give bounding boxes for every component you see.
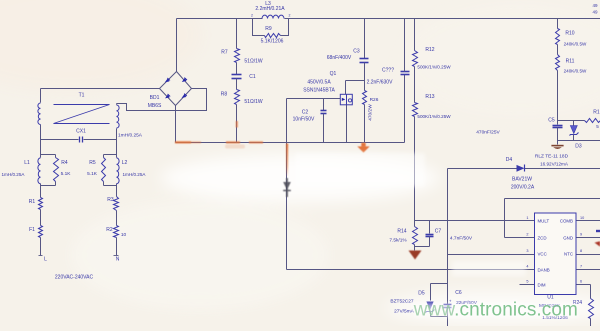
svg-text:C7: C7: [435, 229, 442, 235]
svg-text:500K/1%/0.25W: 500K/1%/0.25W: [417, 114, 451, 119]
svg-text:2.2nF/630V: 2.2nF/630V: [367, 80, 394, 86]
svg-text:R8: R8: [221, 92, 228, 98]
svg-text:L1: L1: [24, 160, 30, 166]
svg-text:NTC: NTC: [564, 252, 573, 257]
svg-text:450V/0.5A: 450V/0.5A: [307, 80, 331, 86]
svg-text:5.1K: 5.1K: [87, 171, 98, 177]
svg-text:L2: L2: [122, 160, 128, 166]
svg-text:SSN1N45BTA: SSN1N45BTA: [303, 88, 335, 94]
svg-text:C???: C???: [382, 68, 394, 74]
svg-text:F1: F1: [29, 227, 35, 233]
svg-text:7.5k/1%: 7.5k/1%: [389, 238, 407, 244]
svg-text:200V/0.2A: 200V/0.2A: [511, 185, 535, 191]
svg-text:GND: GND: [563, 236, 573, 241]
svg-text:R9: R9: [265, 26, 272, 32]
svg-text:4: 4: [526, 265, 528, 269]
svg-text:DANB: DANB: [538, 267, 550, 272]
svg-text:2: 2: [251, 14, 253, 18]
svg-text:R2: R2: [106, 227, 113, 233]
svg-text:10: 10: [121, 232, 127, 238]
svg-text:R12: R12: [425, 47, 434, 53]
svg-text:ZCD: ZCD: [538, 236, 547, 241]
svg-text:7: 7: [580, 265, 582, 269]
svg-text:2.2mH/0.21A: 2.2mH/0.21A: [255, 6, 285, 12]
svg-text:MULT: MULT: [538, 219, 550, 224]
svg-text:R7: R7: [221, 50, 228, 56]
svg-text:R11: R11: [566, 59, 575, 65]
svg-text:49: 49: [592, 10, 598, 15]
svg-text:27V/5mA: 27V/5mA: [394, 308, 415, 314]
svg-text:R13: R13: [425, 94, 434, 100]
svg-text:2: 2: [289, 14, 291, 18]
svg-text:5: 5: [596, 124, 599, 129]
svg-text:L: L: [44, 257, 47, 263]
svg-text:C6: C6: [455, 290, 462, 296]
svg-text:R1: R1: [29, 199, 36, 205]
svg-text:1mH/0.25A: 1mH/0.25A: [123, 172, 147, 177]
svg-text:R3: R3: [107, 197, 114, 203]
svg-text:N: N: [116, 257, 120, 263]
svg-text:BZT52C27: BZT52C27: [390, 299, 414, 305]
svg-text:R4: R4: [61, 160, 68, 166]
svg-text:BD1: BD1: [150, 95, 160, 101]
svg-text:D5: D5: [418, 291, 425, 297]
svg-text:240K/0.5W: 240K/0.5W: [564, 69, 587, 74]
svg-text:C3: C3: [353, 49, 360, 55]
svg-text:6: 6: [580, 280, 582, 284]
svg-text:5.1K: 5.1K: [61, 171, 72, 177]
svg-text:R26: R26: [370, 97, 379, 103]
svg-text:3: 3: [526, 249, 528, 253]
svg-text:2: 2: [526, 233, 528, 237]
svg-text:DIM: DIM: [538, 283, 546, 288]
svg-text:51Ω/1W: 51Ω/1W: [244, 99, 262, 105]
svg-text:5: 5: [526, 280, 528, 284]
svg-text:500K/1%/0.25W: 500K/1%/0.25W: [417, 65, 451, 70]
svg-text:COMB: COMB: [560, 219, 573, 224]
svg-text:10: 10: [580, 216, 584, 220]
svg-text:R1: R1: [593, 110, 600, 116]
svg-text:C2: C2: [302, 110, 309, 116]
svg-text:Q1: Q1: [330, 71, 337, 77]
svg-text:68nF/400V: 68nF/400V: [327, 55, 352, 61]
svg-text:RLZ TE-11 18D: RLZ TE-11 18D: [535, 154, 569, 160]
svg-text:C1: C1: [249, 74, 256, 80]
svg-text:1: 1: [526, 216, 528, 220]
svg-text:D3: D3: [575, 144, 582, 150]
svg-text:R14: R14: [397, 229, 406, 235]
svg-text:9: 9: [580, 233, 582, 237]
svg-text:470nF/25V: 470nF/25V: [476, 130, 500, 136]
svg-text:10nF/50V: 10nF/50V: [293, 117, 315, 123]
svg-text:220VAC-240VAC: 220VAC-240VAC: [55, 275, 94, 281]
svg-text:49: 49: [592, 3, 598, 8]
svg-text:MB6S: MB6S: [148, 103, 162, 109]
svg-text:D4: D4: [506, 157, 513, 163]
svg-text:16.92V/12mA: 16.92V/12mA: [540, 162, 569, 167]
svg-text:VCC: VCC: [538, 252, 547, 257]
svg-text:51Ω/1W: 51Ω/1W: [244, 59, 262, 65]
svg-text:1mH/0.25A: 1mH/0.25A: [118, 133, 143, 139]
svg-text:1mH/0.25A: 1mH/0.25A: [2, 172, 26, 177]
svg-text:470/2W: 470/2W: [368, 104, 374, 121]
svg-text:CX1: CX1: [76, 129, 86, 135]
svg-text:T1: T1: [79, 93, 85, 99]
svg-text:R5: R5: [89, 160, 96, 166]
svg-text:4.7nF/50V: 4.7nF/50V: [450, 236, 473, 242]
svg-text:C5: C5: [548, 118, 555, 124]
svg-text:5.1K/1206: 5.1K/1206: [261, 39, 284, 45]
svg-text:8: 8: [580, 249, 582, 253]
svg-text:R10: R10: [565, 31, 574, 37]
svg-text:240K/0.5W: 240K/0.5W: [564, 42, 587, 47]
svg-text:www.cntronics.com: www.cntronics.com: [413, 299, 578, 320]
svg-text:BAV21W: BAV21W: [512, 177, 532, 183]
